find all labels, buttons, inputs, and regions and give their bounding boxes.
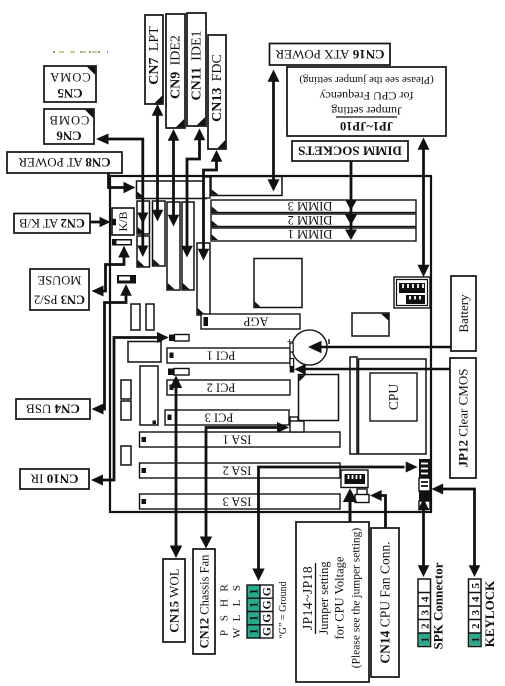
svg-text:ISA 1: ISA 1 <box>223 432 252 446</box>
connector: AT power (CN8 target) <box>137 181 207 199</box>
WOL header <box>168 369 189 376</box>
CPU socket <box>359 359 427 454</box>
svg-text:COMB: COMB <box>49 113 90 127</box>
battery <box>287 330 329 365</box>
small header pair <box>131 304 140 330</box>
connector: COM-B header <box>137 236 150 267</box>
svg-text:CN11 IDE1: CN11 IDE1 <box>190 30 205 100</box>
label box CN9 IDE2 <box>166 14 185 128</box>
label box CN11 IDE1 <box>187 13 206 126</box>
label box CN6 COMB <box>44 109 94 144</box>
svg-text:CN15 WOL: CN15 WOL <box>166 568 181 632</box>
svg-text:DIMM SOCKETS: DIMM SOCKETS <box>298 144 402 159</box>
svg-text:P: P <box>219 630 231 636</box>
wire CN15 to WOL header <box>170 376 182 559</box>
label box CN7 LPT <box>145 15 163 104</box>
label box CN15 WOL <box>163 559 185 642</box>
connector: ATX power (CN16 target) <box>211 177 282 196</box>
svg-text:(Please see the jumper setting: (Please see the jumper setting) <box>299 74 434 86</box>
wire JP1~JP10 label to jumper block <box>418 138 430 278</box>
svg-text:AGP: AGP <box>243 314 268 328</box>
svg-text:3: 3 <box>470 609 482 615</box>
svg-text:1: 1 <box>249 602 261 608</box>
USB header <box>117 275 136 284</box>
label box JP14~JP18 jumper setting <box>296 522 369 682</box>
wire CN7 to LPT connector <box>152 104 164 222</box>
svg-text:1: 1 <box>249 628 261 634</box>
wire KEYLOCK <box>432 484 481 578</box>
svg-text:JP12 Clear CMOS: JP12 Clear CMOS <box>455 369 470 468</box>
svg-text:2: 2 <box>470 623 482 629</box>
svg-text:(Please see the jumper setting: (Please see the jumper setting) <box>351 528 363 669</box>
label box JP12 Clear CMOS <box>450 358 476 478</box>
wire CN4 to USB header <box>92 284 132 415</box>
wire front-panel table to header <box>252 462 417 582</box>
SPK connector strip <box>418 579 432 647</box>
wire CN11 to IDE1 connector <box>181 129 205 258</box>
svg-text:ISA 3: ISA 3 <box>223 494 252 508</box>
svg-text:H: H <box>219 599 231 607</box>
connector: COM-A header <box>137 201 150 234</box>
medium chip <box>128 342 161 363</box>
svg-text:Jumper setting: Jumper setting <box>317 561 331 635</box>
KEYLOCK strip <box>469 579 483 647</box>
svg-text:CN13 FDC: CN13 FDC <box>210 54 225 122</box>
label box CN2 AT K/B <box>14 214 90 234</box>
left column header 2 <box>121 401 131 420</box>
wire CN13 to FDC connector <box>198 150 223 261</box>
svg-text:K/B: K/B <box>116 211 130 231</box>
svg-text:SPK Connector: SPK Connector <box>431 562 446 649</box>
svg-text:KEYLOCK: KEYLOCK <box>482 580 497 647</box>
front panel pin table cells <box>247 585 274 638</box>
label box CN4 USB <box>16 399 90 419</box>
svg-text:for CPU Voltage: for CPU Voltage <box>333 556 347 639</box>
svg-text:G: G <box>262 614 274 623</box>
label box Battery <box>451 276 476 351</box>
svg-text:CN10 IR: CN10 IR <box>30 472 78 487</box>
label box CN8 AT POWER <box>7 152 122 173</box>
svg-text:“G” = Ground: “G” = Ground <box>278 581 289 638</box>
svg-text:G: G <box>262 600 274 609</box>
IR header <box>169 335 189 342</box>
CPU fan connector <box>355 489 369 503</box>
svg-text:PCI 1: PCI 1 <box>207 348 236 362</box>
label box CN16 ATX POWER <box>270 44 391 66</box>
svg-text:Jumper setting: Jumper setting <box>331 104 401 118</box>
chassis fan header <box>290 417 304 432</box>
wire Battery <box>308 341 451 353</box>
wire JP12 clear CMOS <box>294 364 450 375</box>
svg-text:CN16 ATX POWER: CN16 ATX POWER <box>275 47 384 62</box>
JP12 clear-CMOS jumper <box>290 359 294 367</box>
north bridge chip <box>254 259 302 308</box>
connector: IDE2 <box>167 202 180 290</box>
faint scan dotted line <box>53 51 108 53</box>
ISA 1 slot <box>140 432 341 447</box>
left column header 1 <box>121 380 131 399</box>
svg-text:4: 4 <box>470 596 482 602</box>
front panel header <box>419 459 430 509</box>
svg-text:1: 1 <box>470 637 482 643</box>
svg-text:CN4 USB: CN4 USB <box>26 402 80 417</box>
label box CN3 PS/2 MOUSE <box>30 269 89 310</box>
svg-text:S: S <box>219 615 231 621</box>
label box CN5 COMA <box>44 66 96 102</box>
svg-text:ISA 2: ISA 2 <box>223 463 252 477</box>
wire CN8 arrow <box>109 173 136 193</box>
svg-text:DIMM 2: DIMM 2 <box>288 213 333 227</box>
svg-text:CN5: CN5 <box>57 86 83 101</box>
svg-text:JP1~JP10: JP1~JP10 <box>340 119 393 133</box>
svg-text:1: 1 <box>249 615 261 621</box>
wire CN9 to IDE2 connector <box>168 129 180 227</box>
connector: LPT <box>153 201 166 266</box>
svg-text:CPU: CPU <box>386 384 401 411</box>
wire CN12 to chassis-fan header <box>200 422 289 549</box>
svg-text:PCI 2: PCI 2 <box>207 380 236 394</box>
svg-text:L: L <box>231 599 243 606</box>
ISA 2 slot <box>140 463 341 478</box>
chipset <box>299 375 339 421</box>
svg-text:CN2 AT K/B: CN2 AT K/B <box>19 216 85 230</box>
svg-text:MOUSE: MOUSE <box>37 273 81 287</box>
wire JP14 label to jumper block <box>343 488 357 522</box>
svg-text:G: G <box>262 627 274 636</box>
svg-text:CN6: CN6 <box>56 129 82 144</box>
svg-text:5: 5 <box>470 582 482 588</box>
label box CN14 CPU Fan Conn. <box>371 528 399 677</box>
wire CN10 to IR header <box>91 332 169 486</box>
svg-text:S: S <box>231 585 243 591</box>
PCI 3 slot <box>165 410 289 425</box>
svg-text:PCI 3: PCI 3 <box>205 410 234 424</box>
DIMM 3 slot <box>211 199 416 213</box>
label box DIMM SOCKETS <box>292 141 408 161</box>
PCI 2 slot <box>167 380 290 395</box>
PCI 1 slot <box>167 348 290 363</box>
board outline <box>110 176 431 512</box>
front panel pin table letters column 1 <box>219 584 244 639</box>
connector: FDC <box>197 243 210 315</box>
svg-text:1: 1 <box>249 588 261 594</box>
JP14~JP18 jumper block <box>341 470 368 488</box>
svg-text:R: R <box>219 584 231 592</box>
svg-text:for CPU Frequency: for CPU Frequency <box>320 89 414 103</box>
left column header 3 <box>121 446 131 465</box>
svg-text:CN12 Chassis Fan: CN12 Chassis Fan <box>197 554 211 649</box>
svg-text:L: L <box>231 614 243 621</box>
small connector on top edge <box>204 177 211 198</box>
ISA 3 slot <box>140 494 341 509</box>
K/B connector box <box>112 208 134 235</box>
svg-text:CN7 LPT: CN7 LPT <box>147 26 162 85</box>
label box CN10 IR <box>20 469 89 489</box>
connector: IDE1 <box>182 202 194 290</box>
label box CN13 FDC <box>208 35 226 149</box>
svg-text:DIMM 3: DIMM 3 <box>288 199 333 213</box>
wire CN2 arrow <box>90 217 116 227</box>
svg-text:DIMM 1: DIMM 1 <box>288 227 333 241</box>
DIMM 2 slot <box>211 213 416 227</box>
svg-text:CN3 PS/2: CN3 PS/2 <box>34 293 85 307</box>
wire CN6 to COM headers <box>96 134 148 258</box>
wire CN16 to ATX connector <box>268 70 280 192</box>
label box CN12 Chassis Fan <box>193 549 215 654</box>
svg-text:CN8 AT POWER: CN8 AT POWER <box>18 155 111 170</box>
svg-text:JP14~JP18: JP14~JP18 <box>300 566 315 630</box>
wire CN3 to PS/2 header <box>92 246 130 297</box>
AGP slot <box>201 314 300 329</box>
wire CN14 to CPU fan connector <box>370 490 386 528</box>
DIMM 1 slot <box>211 227 416 241</box>
svg-text:G: G <box>262 587 274 596</box>
wire DIMM SOCKETS to slots <box>345 161 357 240</box>
super I/O chip <box>140 366 158 425</box>
svg-text:W: W <box>231 627 243 638</box>
PS/2 mouse header <box>112 239 132 246</box>
svg-text:COMA: COMA <box>49 70 91 84</box>
svg-text:CN14 CPU Fan Conn.: CN14 CPU Fan Conn. <box>377 541 392 663</box>
CPU slot bar <box>350 357 357 454</box>
svg-text:Battery: Battery <box>456 294 471 333</box>
clock chip with notch <box>352 313 389 336</box>
JP1~JP10 jumper block <box>394 277 430 308</box>
svg-text:CN9 IDE2: CN9 IDE2 <box>169 35 184 99</box>
CPU <box>370 373 417 421</box>
label box JP1~JP10 jumper setting <box>287 67 446 136</box>
wire SPK connector <box>418 499 430 578</box>
